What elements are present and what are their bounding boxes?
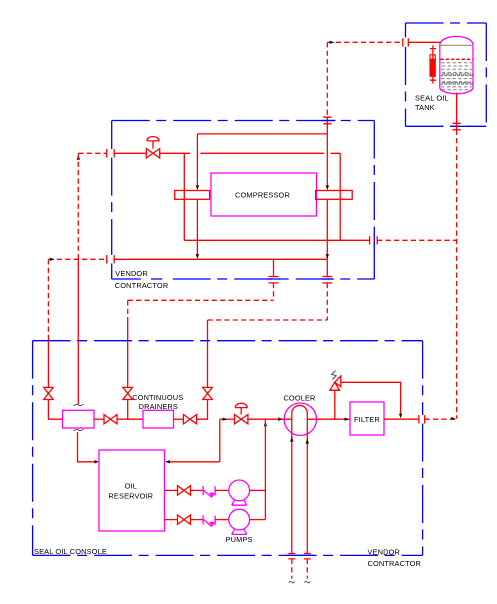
wire: drain 1 dashed to valve2 xyxy=(128,283,274,322)
pump suction line 1 xyxy=(165,489,178,491)
wire: line A upper loop xyxy=(197,133,327,135)
svg-text:SEAL OIL: SEAL OIL xyxy=(415,94,449,103)
tank enclosure border bottom (gap at outlet crossing) xyxy=(406,125,487,127)
inlet valve with actuator V1 xyxy=(114,152,146,154)
arrow into cooler xyxy=(278,418,283,421)
continuous drainer 1 xyxy=(63,410,95,428)
break mark top of drainer 1 xyxy=(74,404,84,406)
svg-text:COMPRESSOR: COMPRESSOR xyxy=(235,190,290,199)
svg-text:CONTINUOUS: CONTINUOUS xyxy=(132,393,183,402)
tank inlet boundary flange ticks xyxy=(403,38,409,46)
wire: line B from valve to right xyxy=(160,152,341,154)
left border flange ticks (lower) xyxy=(107,255,115,263)
svg-text:TANK: TANK xyxy=(415,103,435,112)
cooler xyxy=(284,403,316,435)
tank inlet dashed line (outside box) xyxy=(327,41,403,43)
valve V-3 xyxy=(207,341,209,387)
svg-text:CONTRACTOR: CONTRACTOR xyxy=(368,559,422,568)
console border bottom xyxy=(33,554,423,556)
console border right (gap at outlet flange) xyxy=(422,341,424,556)
pump suction line 2 xyxy=(165,519,178,521)
compressor border top (gap at tank line crossing) xyxy=(112,120,375,122)
tank enclosure border right xyxy=(485,23,487,126)
compressor box top crossing ticks xyxy=(323,117,331,124)
check valve 1 xyxy=(203,486,215,498)
compressor body xyxy=(211,173,317,216)
drain drop 1 xyxy=(273,259,275,276)
tank liquid level (red dashed) xyxy=(440,58,472,60)
wire: dashed to riser corner xyxy=(425,418,457,420)
svg-text:VENDOR: VENDOR xyxy=(368,547,401,556)
svg-text:RESERVOIR: RESERVOIR xyxy=(108,492,153,501)
wire: relief discharge xyxy=(341,382,401,413)
wire: lower header xyxy=(114,258,327,260)
oil reservoir xyxy=(99,450,165,531)
compressor border bottom (gap for VENDOR CONTRACTOR text) xyxy=(112,278,163,280)
compressor border left (gaps at two flanges) xyxy=(111,121,113,280)
tank wavy sludge row 1 xyxy=(441,74,473,76)
wire: right seal drain to lower header xyxy=(326,199,328,259)
svg-text:FILTER: FILTER xyxy=(354,415,380,424)
tank outlet line xyxy=(456,93,458,124)
wire: reservoir return / bypass tee xyxy=(170,461,220,463)
wire: pump discharge header vertical xyxy=(264,419,266,519)
continuation squiggles xyxy=(289,581,295,582)
wire: line B verticals through seals xyxy=(184,153,340,240)
continuous drainer 2 xyxy=(143,410,174,428)
console right boundary flange ticks xyxy=(419,415,425,423)
drain drop 2 xyxy=(326,259,328,276)
right border flange ticks xyxy=(370,236,378,244)
wire: dashed exit to right vertical xyxy=(377,239,456,241)
wire: upper header (sour oil out) xyxy=(184,239,369,241)
wire: drainer 1 bottom to reservoir xyxy=(78,432,95,462)
wire: vertical from tank crossing into right seal xyxy=(326,124,328,186)
wire: cooler outlet to filter xyxy=(307,418,350,420)
console border top xyxy=(33,340,423,342)
svg-text:VENDOR: VENDOR xyxy=(115,269,148,278)
cooler water U-tube xyxy=(292,405,308,553)
arrow right near corner xyxy=(50,258,55,261)
arrow up at corner xyxy=(77,155,80,160)
compressor border right (gap at exit flange) xyxy=(373,121,375,280)
seal oil tank vessel xyxy=(440,36,473,93)
tank outlet boundary crossing ticks xyxy=(453,123,461,129)
wire: left seal drain to lower header xyxy=(196,199,198,254)
valve V-2 xyxy=(127,341,129,387)
tank wavy sludge row 2 xyxy=(441,82,473,84)
svg-text:PUMPS: PUMPS xyxy=(226,535,253,544)
wire: dashed left vertical x=78.3 to drainer 1 xyxy=(77,153,79,259)
bypass valve with actuator xyxy=(235,415,242,424)
svg-text:OIL: OIL xyxy=(125,482,137,491)
svg-text:COOLER: COOLER xyxy=(283,393,315,402)
pump P2 xyxy=(229,509,250,530)
valve after drainer 1 xyxy=(94,418,104,420)
console border left xyxy=(32,341,34,556)
svg-text:CONTRACTOR: CONTRACTOR xyxy=(115,281,169,290)
wire: dashed lower exit to left xyxy=(48,258,106,260)
left shaft seal housing xyxy=(175,191,210,200)
wire: dashed to left corner xyxy=(78,152,106,154)
tank liquid hatch lines xyxy=(441,63,472,90)
valve after drainer 2 xyxy=(174,418,184,420)
left border flange ticks (upper) xyxy=(107,149,115,157)
tank inlet line (solid inside box) xyxy=(408,41,441,43)
pump P1 xyxy=(229,480,250,501)
wire: vertical dashed from tank inlet corner down to compressor box xyxy=(326,42,328,117)
wire: drain 2 dashed to valve3 xyxy=(208,283,328,320)
right shaft seal housing xyxy=(316,191,353,200)
check valve 2 xyxy=(203,515,215,527)
wire: dashed tank outlet down right side xyxy=(456,130,458,419)
water pipe boundary ticks xyxy=(288,554,311,559)
relief valve PSV xyxy=(330,390,340,419)
svg-text:SEAL OIL CONSOLE: SEAL OIL CONSOLE xyxy=(34,547,107,556)
arrow up from pumps junction xyxy=(264,421,267,426)
arrow toward tank xyxy=(330,41,335,44)
tank enclosure border top xyxy=(406,22,487,24)
wire: dashed left vertical to console valve 1 xyxy=(47,259,49,341)
wire: line A down into left seal xyxy=(196,134,198,186)
valve V-1 (left drain inlet) xyxy=(47,341,49,387)
level gauge LG xyxy=(430,45,436,83)
wire: dashed water lines below console xyxy=(292,559,308,579)
tank enclosure border left (gap at inlet flange) xyxy=(405,23,407,126)
break mark bottom of drainer 1 xyxy=(74,429,84,431)
filter xyxy=(350,402,384,435)
tank top weld line xyxy=(440,44,473,46)
wire: filter outlet xyxy=(384,418,419,420)
